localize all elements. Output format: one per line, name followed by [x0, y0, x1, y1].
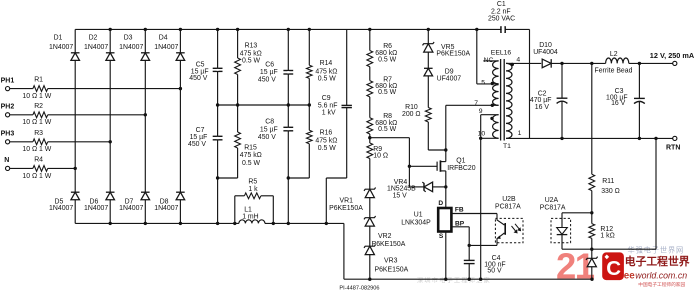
- svg-text:C1: C1: [497, 1, 506, 8]
- svg-text:475 kΩ: 475 kΩ: [240, 51, 262, 58]
- svg-text:R13: R13: [245, 42, 258, 49]
- svg-text:0.5 W: 0.5 W: [318, 145, 336, 152]
- svg-text:0.5 W: 0.5 W: [242, 160, 260, 167]
- svg-text:L2: L2: [610, 51, 618, 58]
- svg-text:1N4007: 1N4007: [119, 205, 143, 212]
- svg-text:1N4007: 1N4007: [84, 205, 108, 212]
- svg-text:FB: FB: [455, 206, 464, 213]
- svg-text:VR2: VR2: [378, 233, 392, 240]
- svg-text:1 kV: 1 kV: [322, 109, 336, 116]
- svg-text:R14: R14: [320, 60, 333, 67]
- svg-text:330 Ω: 330 Ω: [601, 188, 620, 195]
- svg-text:P6KE150A: P6KE150A: [372, 241, 406, 248]
- svg-text:NC: NC: [484, 57, 494, 64]
- svg-text:15 V: 15 V: [393, 192, 408, 199]
- svg-text:5: 5: [481, 79, 485, 86]
- svg-text:VR3: VR3: [384, 258, 398, 265]
- svg-text:1N4007: 1N4007: [84, 44, 108, 51]
- svg-text:Q1: Q1: [456, 158, 465, 165]
- svg-text:LNK304P: LNK304P: [401, 220, 431, 227]
- svg-text:C: C: [606, 257, 621, 280]
- svg-text:D1: D1: [54, 34, 63, 41]
- svg-text:D10: D10: [539, 42, 552, 49]
- svg-text:1 mH: 1 mH: [242, 213, 258, 220]
- svg-text:R5: R5: [248, 178, 257, 185]
- svg-text:0.5 W: 0.5 W: [378, 56, 396, 63]
- svg-text:PI-4487-082906: PI-4487-082906: [339, 286, 379, 291]
- svg-text:15 µF: 15 µF: [190, 134, 208, 141]
- svg-text:RTN: RTN: [666, 145, 680, 152]
- svg-text:N: N: [4, 157, 9, 164]
- svg-text:0.5 W: 0.5 W: [378, 126, 396, 133]
- svg-text:12 V, 250 mA: 12 V, 250 mA: [650, 51, 695, 60]
- svg-text:C7: C7: [196, 127, 205, 134]
- svg-text:1 kΩ: 1 kΩ: [600, 233, 614, 240]
- svg-text:0.5 W: 0.5 W: [318, 76, 336, 83]
- svg-text:10 Ω 1 W: 10 Ω 1 W: [22, 119, 51, 126]
- svg-text:UF4007: UF4007: [437, 76, 462, 83]
- svg-text:1 k: 1 k: [248, 186, 258, 193]
- svg-text:450 V: 450 V: [188, 141, 206, 148]
- svg-text:D4: D4: [159, 34, 168, 41]
- svg-text:9: 9: [479, 108, 483, 115]
- svg-text:VR1: VR1: [340, 198, 354, 205]
- svg-text:C9: C9: [322, 95, 331, 102]
- svg-text:C8: C8: [265, 119, 274, 126]
- svg-text:0.5 W: 0.5 W: [242, 58, 260, 65]
- svg-text:D: D: [438, 200, 443, 207]
- svg-text:U1: U1: [414, 211, 423, 218]
- svg-text:450 V: 450 V: [258, 77, 276, 84]
- svg-text:10 Ω 1 W: 10 Ω 1 W: [22, 93, 51, 100]
- svg-text:1N4007: 1N4007: [49, 44, 73, 51]
- svg-text:电子工程世界: 电子工程世界: [625, 254, 690, 268]
- svg-text:15 µF: 15 µF: [260, 69, 278, 76]
- svg-text:0.5 W: 0.5 W: [378, 89, 396, 96]
- svg-text:PH1: PH1: [1, 77, 15, 84]
- svg-text:R6: R6: [383, 43, 392, 50]
- svg-text:UF4004: UF4004: [533, 49, 558, 56]
- svg-text:R3: R3: [34, 130, 43, 137]
- svg-text:P6KE150A: P6KE150A: [436, 50, 470, 57]
- svg-text:中国电子工程师的家园: 中国电子工程师的家园: [638, 281, 685, 288]
- svg-text:ee: ee: [624, 270, 635, 281]
- svg-text:4: 4: [516, 57, 520, 64]
- svg-text:PH2: PH2: [1, 104, 15, 111]
- svg-text:D2: D2: [89, 34, 98, 41]
- svg-text:475 kΩ: 475 kΩ: [315, 68, 337, 75]
- svg-text:475 kΩ: 475 kΩ: [315, 138, 337, 145]
- svg-text:50 V: 50 V: [487, 268, 502, 275]
- svg-text:R4: R4: [34, 156, 43, 163]
- svg-text:C6: C6: [265, 61, 274, 68]
- svg-text:450 V: 450 V: [189, 75, 207, 82]
- svg-text:450 V: 450 V: [258, 134, 276, 141]
- svg-text:R11: R11: [602, 178, 614, 185]
- svg-text:16 V: 16 V: [611, 100, 626, 107]
- svg-text:10: 10: [478, 131, 486, 138]
- svg-text:10 Ω 1 W: 10 Ω 1 W: [22, 146, 51, 153]
- svg-text:2.2 nF: 2.2 nF: [491, 8, 511, 15]
- svg-text:Ferrite Bead: Ferrite Bead: [595, 67, 633, 74]
- svg-text:7: 7: [474, 100, 478, 107]
- svg-text:PH3: PH3: [1, 131, 15, 138]
- svg-text:250 VAC: 250 VAC: [488, 15, 515, 22]
- svg-text:1: 1: [518, 130, 522, 137]
- svg-text:16 V: 16 V: [535, 104, 550, 111]
- svg-text:5.6 nF: 5.6 nF: [318, 102, 338, 109]
- svg-text:10 Ω 1 W: 10 Ω 1 W: [22, 173, 51, 180]
- svg-text:R16: R16: [320, 130, 333, 137]
- svg-text:S: S: [439, 233, 444, 240]
- svg-text:PC817A: PC817A: [495, 203, 521, 210]
- svg-text:R15: R15: [244, 145, 257, 152]
- svg-text:10 Ω: 10 Ω: [373, 153, 388, 160]
- svg-text:PC817A: PC817A: [540, 204, 566, 211]
- svg-text:475 kΩ: 475 kΩ: [240, 152, 262, 159]
- svg-text:T1: T1: [503, 143, 511, 150]
- svg-text:P6KE150A: P6KE150A: [329, 205, 363, 212]
- svg-text:R1: R1: [34, 77, 43, 84]
- svg-text:R2: R2: [34, 103, 43, 110]
- svg-text:U2B: U2B: [502, 196, 516, 203]
- svg-text:15 µF: 15 µF: [260, 126, 278, 133]
- svg-text:IRFBC20: IRFBC20: [447, 165, 476, 172]
- svg-text:1N4007: 1N4007: [154, 205, 178, 212]
- svg-text:world.com.cn: world.com.cn: [635, 270, 687, 280]
- svg-text:U2A: U2A: [545, 197, 559, 204]
- svg-text:1N4007: 1N4007: [49, 205, 73, 212]
- svg-text:P6KE150A: P6KE150A: [375, 266, 409, 273]
- svg-text:EEL16: EEL16: [491, 50, 512, 57]
- svg-text:200 Ω: 200 Ω: [402, 111, 421, 118]
- svg-text:1N4007: 1N4007: [154, 44, 178, 51]
- svg-text:D3: D3: [124, 34, 133, 41]
- svg-text:1N4007: 1N4007: [119, 44, 143, 51]
